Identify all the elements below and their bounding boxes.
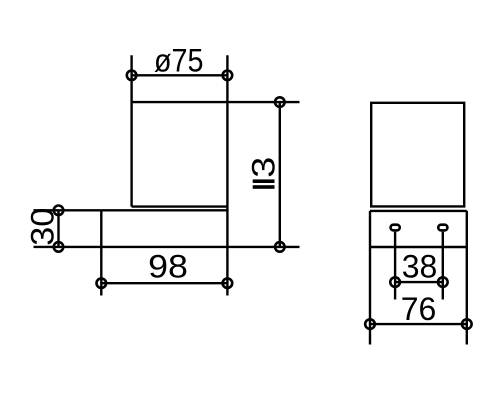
svg-text:3: 3 (246, 157, 282, 178)
svg-text:ø75: ø75 (154, 43, 204, 79)
svg-text:30: 30 (25, 208, 61, 246)
svg-text:38: 38 (402, 248, 438, 284)
svg-text:98: 98 (148, 249, 188, 285)
svg-text:76: 76 (401, 291, 437, 327)
